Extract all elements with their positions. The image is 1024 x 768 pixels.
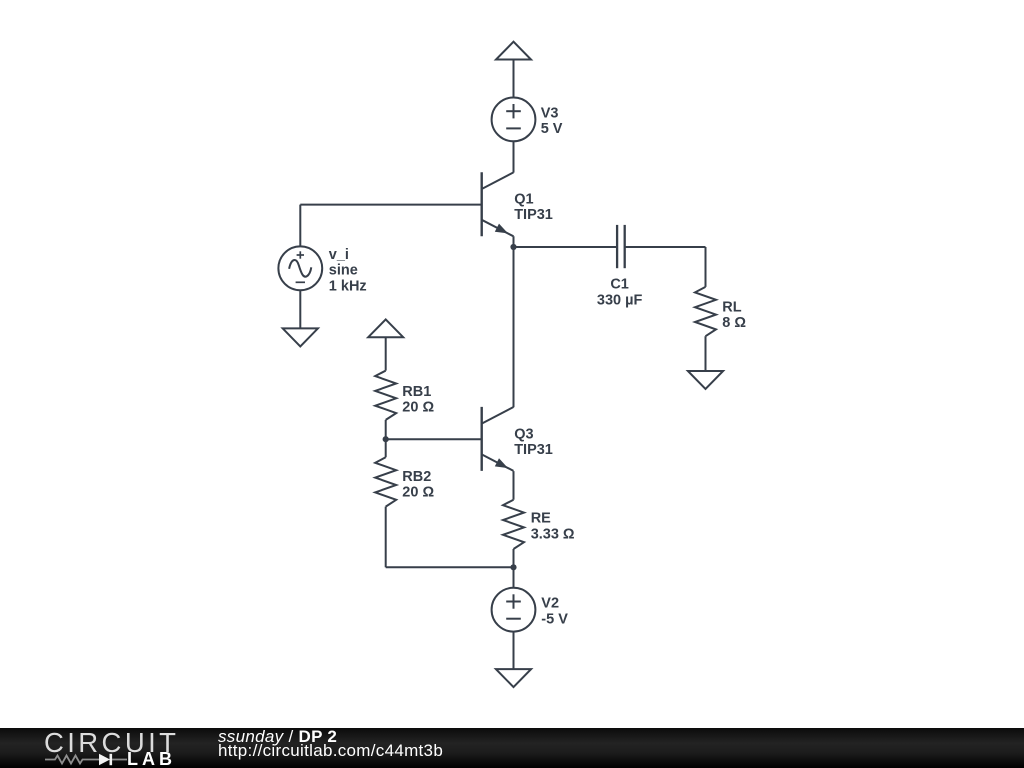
node RB1/RB2 junction [383, 436, 389, 442]
svg-text:v_i: v_i [329, 247, 349, 263]
wire V2 to ground [513, 632, 515, 670]
ground (V2) [496, 669, 531, 687]
svg-text:LAB: LAB [127, 749, 176, 768]
logo resistor zigzag [45, 756, 99, 764]
wire Q1 emitter to Q3 collector [513, 236, 515, 407]
wire down to RL [705, 247, 707, 287]
svg-text:RB1: RB1 [402, 384, 431, 400]
transistor Q1 (NPN) [482, 172, 514, 236]
ground (v_i) [283, 328, 318, 346]
voltage source V3 [492, 98, 536, 142]
svg-text:330 µF: 330 µF [597, 292, 643, 308]
svg-text:TIP31: TIP31 [514, 442, 553, 458]
wire Q3 emitter to RE [513, 471, 515, 500]
wire V3 to Q1 collector [513, 141, 515, 172]
svg-text:sine: sine [329, 263, 358, 279]
svg-text:RB2: RB2 [402, 469, 431, 485]
wire RE to node [513, 549, 515, 588]
wire node to Q3 base [386, 438, 482, 440]
svg-text:Q3: Q3 [514, 426, 533, 442]
node emitter/V2 junction [510, 564, 516, 570]
capacitor C1 [617, 225, 625, 268]
wire RB2 to emitter node [386, 566, 514, 568]
wire RB1 to RB2 [385, 420, 387, 457]
svg-text:RE: RE [531, 511, 551, 527]
svg-text:8 Ω: 8 Ω [722, 315, 746, 331]
svg-text:20 Ω: 20 Ω [402, 485, 434, 501]
wire v_i to ground [299, 290, 301, 328]
resistor RE [503, 500, 524, 549]
node output junction [510, 244, 516, 250]
wire down to v_i [299, 205, 301, 247]
svg-text:20 Ω: 20 Ω [402, 400, 434, 416]
svg-text:1 kHz: 1 kHz [329, 279, 367, 295]
resistor RB2 [375, 457, 396, 506]
sine source v_i [278, 246, 322, 290]
wire node to C1 [514, 246, 618, 248]
voltage source V2 [492, 588, 536, 632]
wire power flag to RB1 [385, 337, 387, 370]
svg-text:Q1: Q1 [514, 191, 533, 207]
svg-text:-5 V: -5 V [541, 611, 568, 627]
svg-text:RL: RL [722, 299, 741, 315]
wire RL to ground [705, 336, 707, 371]
wire Q1 base [300, 204, 481, 206]
svg-text:3.33 Ω: 3.33 Ω [531, 526, 575, 542]
wire C1 to RL [625, 246, 706, 248]
logo diode [99, 754, 110, 765]
resistor RL [695, 287, 716, 336]
svg-text:5 V: 5 V [541, 121, 563, 137]
svg-text:V3: V3 [541, 105, 559, 121]
ground (RL) [688, 371, 723, 389]
resistor RB1 [375, 371, 396, 420]
svg-text:C1: C1 [610, 277, 629, 293]
wire RB2 down [385, 507, 387, 568]
power flag VCC (top) [496, 42, 531, 60]
transistor Q3 (NPN) [482, 407, 514, 471]
wire power flag to V3 [513, 60, 515, 99]
svg-text:TIP31: TIP31 [514, 207, 553, 223]
svg-text:V2: V2 [541, 596, 559, 612]
power flag (RB1) [368, 319, 403, 337]
